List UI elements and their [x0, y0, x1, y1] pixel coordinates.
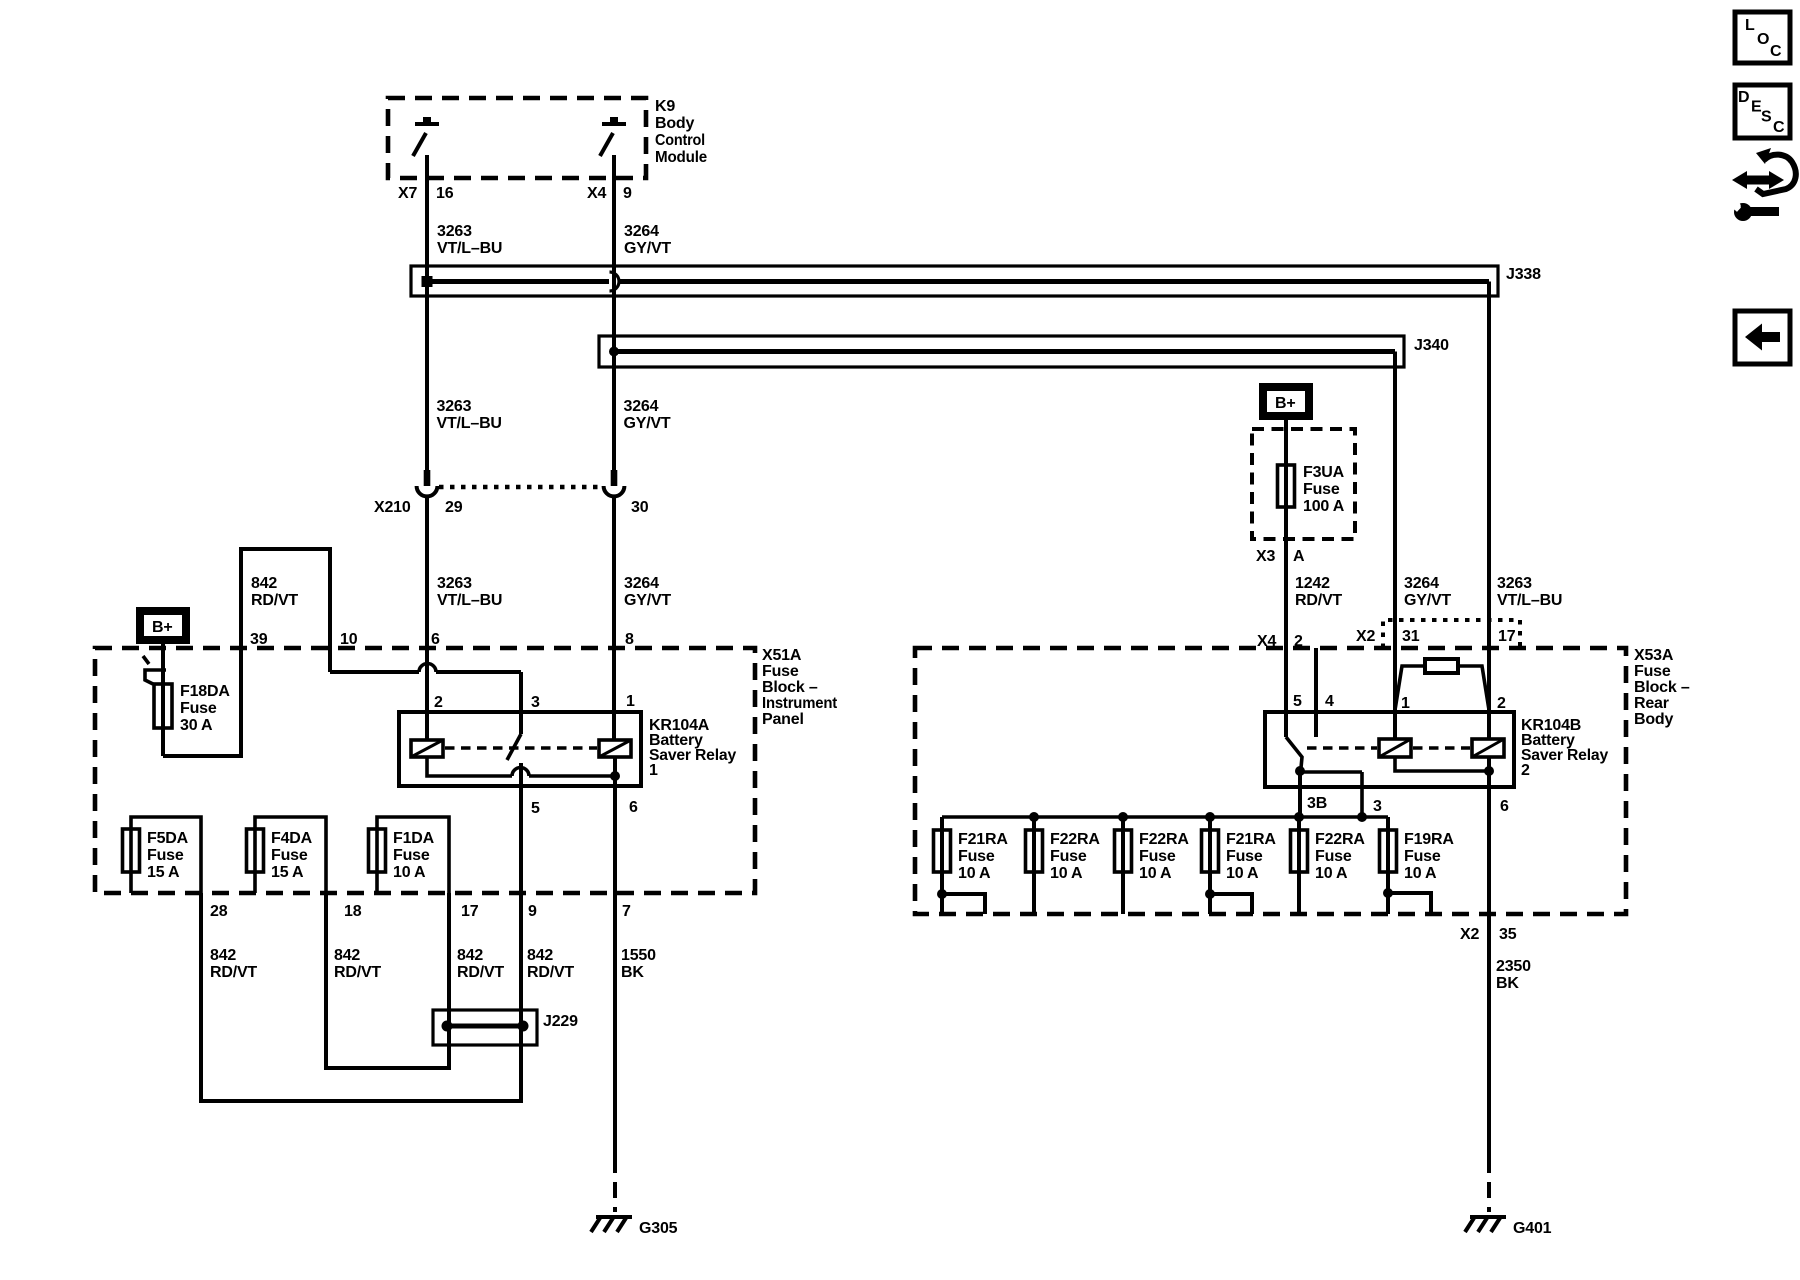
svg-text:Fuse: Fuse [271, 847, 308, 864]
wire relay A pin 5 down to pin 9 [519, 763, 523, 893]
fuse block X53A dashed box [915, 648, 1626, 914]
fuse F22RA second [1026, 817, 1043, 914]
svg-text:3263: 3263 [437, 398, 472, 415]
svg-text:Fuse: Fuse [762, 663, 799, 680]
svg-text:Fuse: Fuse [1226, 848, 1263, 865]
fuse holder F3UA dashed box [1252, 429, 1355, 539]
svg-text:Saver Relay: Saver Relay [649, 747, 736, 764]
label 3263 VT/L-BU mid [437, 398, 502, 432]
svg-text:3264: 3264 [624, 223, 659, 240]
svg-text:X2: X2 [1460, 926, 1479, 943]
svg-text:Block –: Block – [762, 679, 818, 696]
svg-text:GY/VT: GY/VT [624, 415, 671, 432]
fuse F22RA third [1115, 817, 1132, 914]
icon diagnostic double-arrow and wrench [1730, 148, 1796, 221]
fuse F4DA sub-box [255, 817, 326, 893]
svg-text:Rear: Rear [1634, 695, 1669, 712]
wire 842 pin 9 through J229 then left to pin 28 [201, 893, 521, 1101]
svg-text:GY/VT: GY/VT [624, 592, 671, 609]
svg-text:3264: 3264 [624, 398, 659, 415]
svg-text:J340: J340 [1414, 337, 1449, 354]
label 1242 RD/VT [1295, 575, 1342, 609]
svg-text:1: 1 [1401, 695, 1410, 712]
connector X210 mating dotted line [439, 485, 602, 490]
svg-text:5: 5 [531, 800, 540, 817]
fuse F4DA [247, 829, 264, 872]
svg-text:2: 2 [1497, 695, 1506, 712]
svg-text:F19RA: F19RA [1404, 831, 1454, 848]
wire F18DA to pin 39 [163, 648, 241, 756]
svg-text:D: D [1738, 89, 1749, 106]
svg-text:G305: G305 [639, 1220, 678, 1237]
svg-text:F22RA: F22RA [1050, 831, 1100, 848]
label F21RA Fuse 10 A first [958, 831, 1008, 882]
wire 3263 VT/L-BU drop from J338 to X53A pin 17 [1487, 282, 1491, 740]
svg-text:F3UA: F3UA [1303, 464, 1345, 481]
svg-text:35: 35 [1499, 926, 1517, 943]
label J229 [543, 1013, 578, 1030]
svg-text:10 A: 10 A [958, 865, 991, 882]
svg-text:6: 6 [629, 799, 638, 816]
svg-text:29: 29 [445, 499, 463, 516]
svg-text:2: 2 [434, 694, 443, 711]
label J340 [1414, 337, 1449, 354]
relay KR104B switch lever [1286, 737, 1302, 768]
svg-text:Fuse: Fuse [1050, 848, 1087, 865]
label J338 [1506, 266, 1541, 283]
svg-text:X210: X210 [374, 499, 411, 516]
svg-text:Body: Body [1634, 711, 1674, 728]
svg-text:15 A: 15 A [147, 864, 180, 881]
svg-text:3263: 3263 [1497, 575, 1532, 592]
svg-text:Control: Control [655, 132, 705, 149]
label X4 9 [587, 185, 632, 202]
svg-text:S: S [1761, 109, 1772, 126]
wire 3264 from K9 X4-9 down to X210 [612, 155, 616, 471]
label 3263 VT/L-BU lower [437, 575, 502, 609]
B+ terminal rear body [1263, 387, 1309, 416]
relay KR104A box [399, 712, 641, 786]
pin label 8 [625, 631, 634, 648]
svg-text:17: 17 [461, 903, 479, 920]
svg-text:Fuse: Fuse [1315, 848, 1352, 865]
svg-text:9: 9 [528, 903, 537, 920]
svg-text:10 A: 10 A [393, 864, 426, 881]
wire relay A pin 6 1550 BK down [613, 757, 617, 1157]
ground G401 [1465, 1157, 1506, 1232]
svg-text:GY/VT: GY/VT [624, 240, 671, 257]
pin label 39 [250, 631, 268, 648]
svg-text:B+: B+ [1275, 395, 1296, 412]
wire label 842 RD/VT a [210, 947, 257, 981]
pin labels 28 18 17 9 7 [210, 903, 631, 920]
svg-text:Fuse: Fuse [393, 847, 430, 864]
label F5DA Fuse 15 A [147, 830, 189, 881]
label F1DA Fuse 10 A [393, 830, 435, 881]
svg-text:Fuse: Fuse [1139, 848, 1176, 865]
label 2350 BK [1496, 958, 1531, 992]
svg-text:X2: X2 [1356, 628, 1375, 645]
wire coil bottoms to pin 6 relay B [1395, 757, 1489, 771]
fuse F1DA [369, 829, 386, 872]
label KR104B Battery Saver Relay 2 [1521, 717, 1608, 779]
label X7 16 [398, 185, 454, 202]
svg-text:A: A [1293, 548, 1305, 565]
wire label 842 RD/VT b [334, 947, 381, 981]
fuse F19RA sixth [1380, 817, 1432, 914]
svg-text:RD/VT: RD/VT [1295, 592, 1342, 609]
label 842 RD/VT jumper [251, 575, 298, 609]
svg-text:18: 18 [344, 903, 362, 920]
svg-text:9: 9 [623, 185, 632, 202]
svg-text:B+: B+ [152, 619, 173, 636]
wire F3UA to X53A pin X4-2 and relay pin 5 [1284, 507, 1288, 737]
label K9 Body Control Module [655, 98, 707, 166]
label X2 31 17 [1356, 628, 1516, 645]
svg-text:3263: 3263 [437, 575, 472, 592]
svg-text:8: 8 [625, 631, 634, 648]
label 3264 GY/VT right [1404, 575, 1451, 609]
wire 3263 X210 to X51A pin 6 and relay pin 2 [425, 497, 429, 740]
svg-text:Block –: Block – [1634, 679, 1690, 696]
resistor across KR104B pins 1 and 2 [1395, 659, 1489, 710]
svg-text:Fuse: Fuse [180, 700, 217, 717]
label X3 A [1256, 548, 1305, 565]
svg-text:F18DA: F18DA [180, 683, 230, 700]
relay KR104B pin 4 wire [1314, 648, 1318, 737]
relay KR104B right coil [1472, 739, 1504, 757]
fuse block X51A dashed box [95, 648, 755, 893]
wire relay B to pin 3B [1298, 768, 1302, 817]
wire pin 10 to relay KR104A pin 3 with hop over wire 3263 [330, 664, 521, 735]
label 3264 GY/VT mid [624, 398, 671, 432]
wire 842 pin 17 down then left to pin 18 [326, 893, 449, 1068]
label 3263 VT/L-BU upper [437, 223, 502, 257]
svg-text:F21RA: F21RA [1226, 831, 1276, 848]
fuse F5DA [123, 829, 140, 872]
svg-text:F22RA: F22RA [1139, 831, 1189, 848]
svg-text:6: 6 [431, 631, 440, 648]
relay KR104A switch lever [507, 734, 521, 760]
svg-text:3: 3 [1373, 798, 1382, 815]
wire 3263 from K9 X7-16 down to X210 [425, 155, 429, 471]
wire label 842 RD/VT d [527, 947, 574, 981]
wire 842 RD/VT jumper pin 39 up over to pin 10 [241, 549, 330, 672]
svg-text:10 A: 10 A [1404, 865, 1437, 882]
fuse rail bus X53A [942, 812, 1388, 822]
connector X210 pin 30 [604, 470, 625, 496]
svg-text:Fuse: Fuse [958, 848, 995, 865]
svg-text:842: 842 [334, 947, 360, 964]
pin label 10 [340, 631, 358, 648]
label 3263 VT/L-BU right [1497, 575, 1562, 609]
svg-text:K9: K9 [655, 98, 675, 115]
fuse F1DA sub-box [377, 817, 449, 893]
svg-text:4: 4 [1325, 693, 1334, 710]
svg-text:GY/VT: GY/VT [1404, 592, 1451, 609]
svg-text:VT/L–BU: VT/L–BU [437, 592, 502, 609]
svg-text:28: 28 [210, 903, 228, 920]
svg-text:VT/L–BU: VT/L–BU [1497, 592, 1562, 609]
svg-text:F22RA: F22RA [1315, 831, 1365, 848]
svg-text:5: 5 [1293, 693, 1302, 710]
svg-text:RD/VT: RD/VT [210, 964, 257, 981]
svg-text:RD/VT: RD/VT [334, 964, 381, 981]
junction dot relay A pin 6 [610, 771, 620, 781]
svg-text:F21RA: F21RA [958, 831, 1008, 848]
module K9 Body Control Module [388, 98, 646, 178]
relay KR104A pin labels 5 6 [531, 799, 638, 817]
fuse F21RA fourth [1202, 817, 1253, 914]
svg-text:X3: X3 [1256, 548, 1275, 565]
svg-text:Fuse: Fuse [147, 847, 184, 864]
svg-text:3: 3 [531, 694, 540, 711]
relay KR104B pin labels 3B 3 6 [1307, 795, 1509, 815]
label F3UA Fuse 100 A [1303, 464, 1345, 515]
svg-text:F5DA: F5DA [147, 830, 189, 847]
svg-text:X7: X7 [398, 185, 417, 202]
svg-text:RD/VT: RD/VT [457, 964, 504, 981]
wire relay B to pin 3 [1300, 772, 1362, 817]
svg-text:F1DA: F1DA [393, 830, 435, 847]
svg-text:RD/VT: RD/VT [251, 592, 298, 609]
svg-text:842: 842 [457, 947, 483, 964]
svg-text:1550: 1550 [621, 947, 656, 964]
svg-text:842: 842 [527, 947, 553, 964]
wire B+ to fuse F3UA [1284, 420, 1288, 507]
icon LOC button [1735, 12, 1790, 63]
fuse F3UA [1278, 465, 1295, 507]
B+ terminal instrument panel [140, 611, 186, 640]
svg-text:39: 39 [250, 631, 268, 648]
svg-text:1: 1 [626, 693, 635, 710]
svg-text:3B: 3B [1307, 795, 1327, 812]
label F4DA Fuse 15 A [271, 830, 313, 881]
label 3264 GY/VT upper [624, 223, 671, 257]
relay KR104A pin labels 2 3 1 [434, 693, 635, 711]
label F18DA Fuse 30 A [180, 683, 230, 734]
label F21RA Fuse 10 A fourth [1226, 831, 1276, 882]
label F22RA Fuse 10 A second [1050, 831, 1100, 882]
fuse F22RA fifth [1291, 817, 1308, 914]
svg-text:C: C [1773, 119, 1785, 136]
fuse F21RA first [934, 817, 986, 914]
svg-text:C: C [1770, 43, 1782, 60]
wire 3264 X210 to X51A pin 8 and relay pin 1 [612, 497, 616, 740]
svg-text:31: 31 [1402, 628, 1420, 645]
svg-text:3263: 3263 [437, 223, 472, 240]
svg-text:J229: J229 [543, 1013, 578, 1030]
svg-text:J338: J338 [1506, 266, 1541, 283]
svg-text:3264: 3264 [624, 575, 659, 592]
svg-text:16: 16 [436, 185, 454, 202]
svg-text:BK: BK [1496, 975, 1519, 992]
relay KR104B pin labels 5 4 1 2 [1293, 693, 1506, 712]
svg-text:Instrument: Instrument [762, 695, 838, 712]
relay KR104A coil bottom wire with hop over pin5 [427, 757, 615, 776]
svg-text:BK: BK [621, 964, 644, 981]
svg-text:F4DA: F4DA [271, 830, 313, 847]
wire B+ to fuse F18DA [161, 644, 165, 756]
svg-text:7: 7 [622, 903, 631, 920]
switch driver X7-16 inside K9 [413, 117, 439, 156]
svg-text:Body: Body [655, 115, 695, 132]
label F22RA Fuse 10 A fifth [1315, 831, 1365, 882]
wire 3264 GY/VT drop from J340 to X53A pin 31 [1393, 352, 1397, 740]
junction dot relay B pin 6 [1484, 766, 1494, 776]
svg-text:100 A: 100 A [1303, 498, 1345, 515]
switch driver X4-9 inside K9 [600, 117, 626, 156]
splice pack J338 [411, 266, 1498, 296]
relay KR104A left coil [411, 740, 443, 757]
svg-text:10 A: 10 A [1226, 865, 1259, 882]
svg-text:1242: 1242 [1295, 575, 1330, 592]
battery stud hook symbol [143, 656, 166, 684]
svg-text:L: L [1745, 17, 1755, 34]
label X51A Fuse Block Instrument Panel [762, 647, 838, 728]
svg-text:VT/L–BU: VT/L–BU [437, 240, 502, 257]
label G401 [1513, 1220, 1552, 1237]
label F19RA Fuse 10 A sixth [1404, 831, 1454, 882]
svg-text:X53A: X53A [1634, 647, 1674, 664]
svg-text:1: 1 [649, 762, 658, 779]
svg-text:842: 842 [251, 575, 277, 592]
svg-text:Fuse: Fuse [1634, 663, 1671, 680]
svg-text:Panel: Panel [762, 711, 804, 728]
icon DESC button [1735, 85, 1790, 138]
label pin 29 [445, 499, 463, 516]
svg-text:Fuse: Fuse [1303, 481, 1340, 498]
relay KR104B left coil [1379, 739, 1411, 757]
svg-text:2350: 2350 [1496, 958, 1531, 975]
svg-text:30: 30 [631, 499, 649, 516]
svg-text:VT/L–BU: VT/L–BU [437, 415, 502, 432]
svg-text:O: O [1757, 31, 1769, 48]
svg-text:X4: X4 [587, 185, 606, 202]
svg-text:RD/VT: RD/VT [527, 964, 574, 981]
relay KR104A linkage dashed [445, 746, 597, 750]
connector X210 pin 29 [417, 470, 438, 496]
svg-text:10 A: 10 A [1050, 865, 1083, 882]
pin label 6 [431, 631, 440, 648]
label KR104A Battery Saver Relay 1 [649, 717, 736, 779]
svg-text:10 A: 10 A [1315, 865, 1348, 882]
label F22RA Fuse 10 A third [1139, 831, 1189, 882]
svg-text:15 A: 15 A [271, 864, 304, 881]
label X2 35 bottom [1460, 926, 1517, 943]
svg-text:2: 2 [1521, 762, 1530, 779]
splice J229 [433, 1010, 537, 1045]
svg-text:10: 10 [340, 631, 358, 648]
label 3264 GY/VT lower [624, 575, 671, 609]
label G305 [639, 1220, 678, 1237]
svg-text:30 A: 30 A [180, 717, 213, 734]
wire label 1550 BK [621, 947, 656, 981]
relay KR104B box [1265, 712, 1514, 787]
ground G305 [591, 1157, 632, 1232]
svg-text:3264: 3264 [1404, 575, 1439, 592]
svg-text:17: 17 [1498, 628, 1516, 645]
wire label 842 RD/VT c [457, 947, 504, 981]
fuse F5DA sub-box [131, 817, 201, 893]
wire relay B pin 6 2350 BK down [1487, 757, 1491, 1157]
junction dot relay B common [1295, 766, 1305, 776]
label X53A Fuse Block Rear Body [1634, 647, 1690, 728]
svg-text:Fuse: Fuse [1404, 848, 1441, 865]
svg-text:10 A: 10 A [1139, 865, 1172, 882]
splice pack J340 [599, 336, 1404, 367]
svg-text:Saver Relay: Saver Relay [1521, 747, 1608, 764]
label pin 30 [631, 499, 649, 516]
svg-text:Module: Module [655, 149, 707, 166]
svg-text:X51A: X51A [762, 647, 802, 664]
svg-text:842: 842 [210, 947, 236, 964]
icon back arrow button [1735, 311, 1790, 364]
relay KR104B linkage dashed [1307, 746, 1470, 750]
relay KR104A right coil [599, 740, 631, 757]
fuse F18DA [154, 684, 172, 728]
svg-text:G401: G401 [1513, 1220, 1552, 1237]
connector X2 dotted box [1383, 620, 1520, 648]
label X4 2 [1257, 633, 1303, 650]
svg-text:6: 6 [1500, 798, 1509, 815]
label X210 [374, 499, 411, 516]
